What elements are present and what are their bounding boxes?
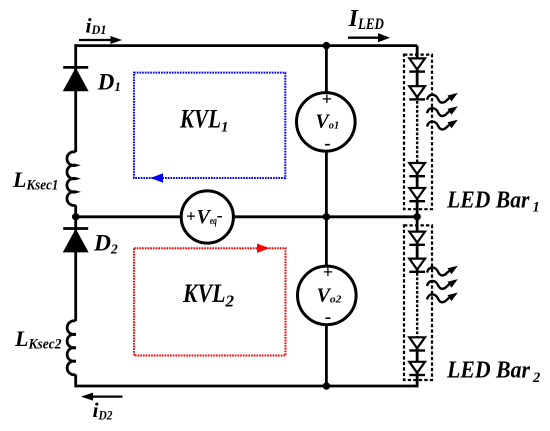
svg-text:LED Bar2: LED Bar2 — [446, 358, 540, 386]
svg-text:-: - — [325, 307, 331, 328]
svg-text:+: + — [323, 262, 333, 282]
svg-text:+: + — [186, 206, 196, 225]
svg-text:-: - — [324, 133, 330, 154]
svg-text:+: + — [322, 89, 332, 109]
svg-text:-: - — [217, 205, 223, 225]
svg-text:LED Bar1: LED Bar1 — [446, 187, 540, 215]
